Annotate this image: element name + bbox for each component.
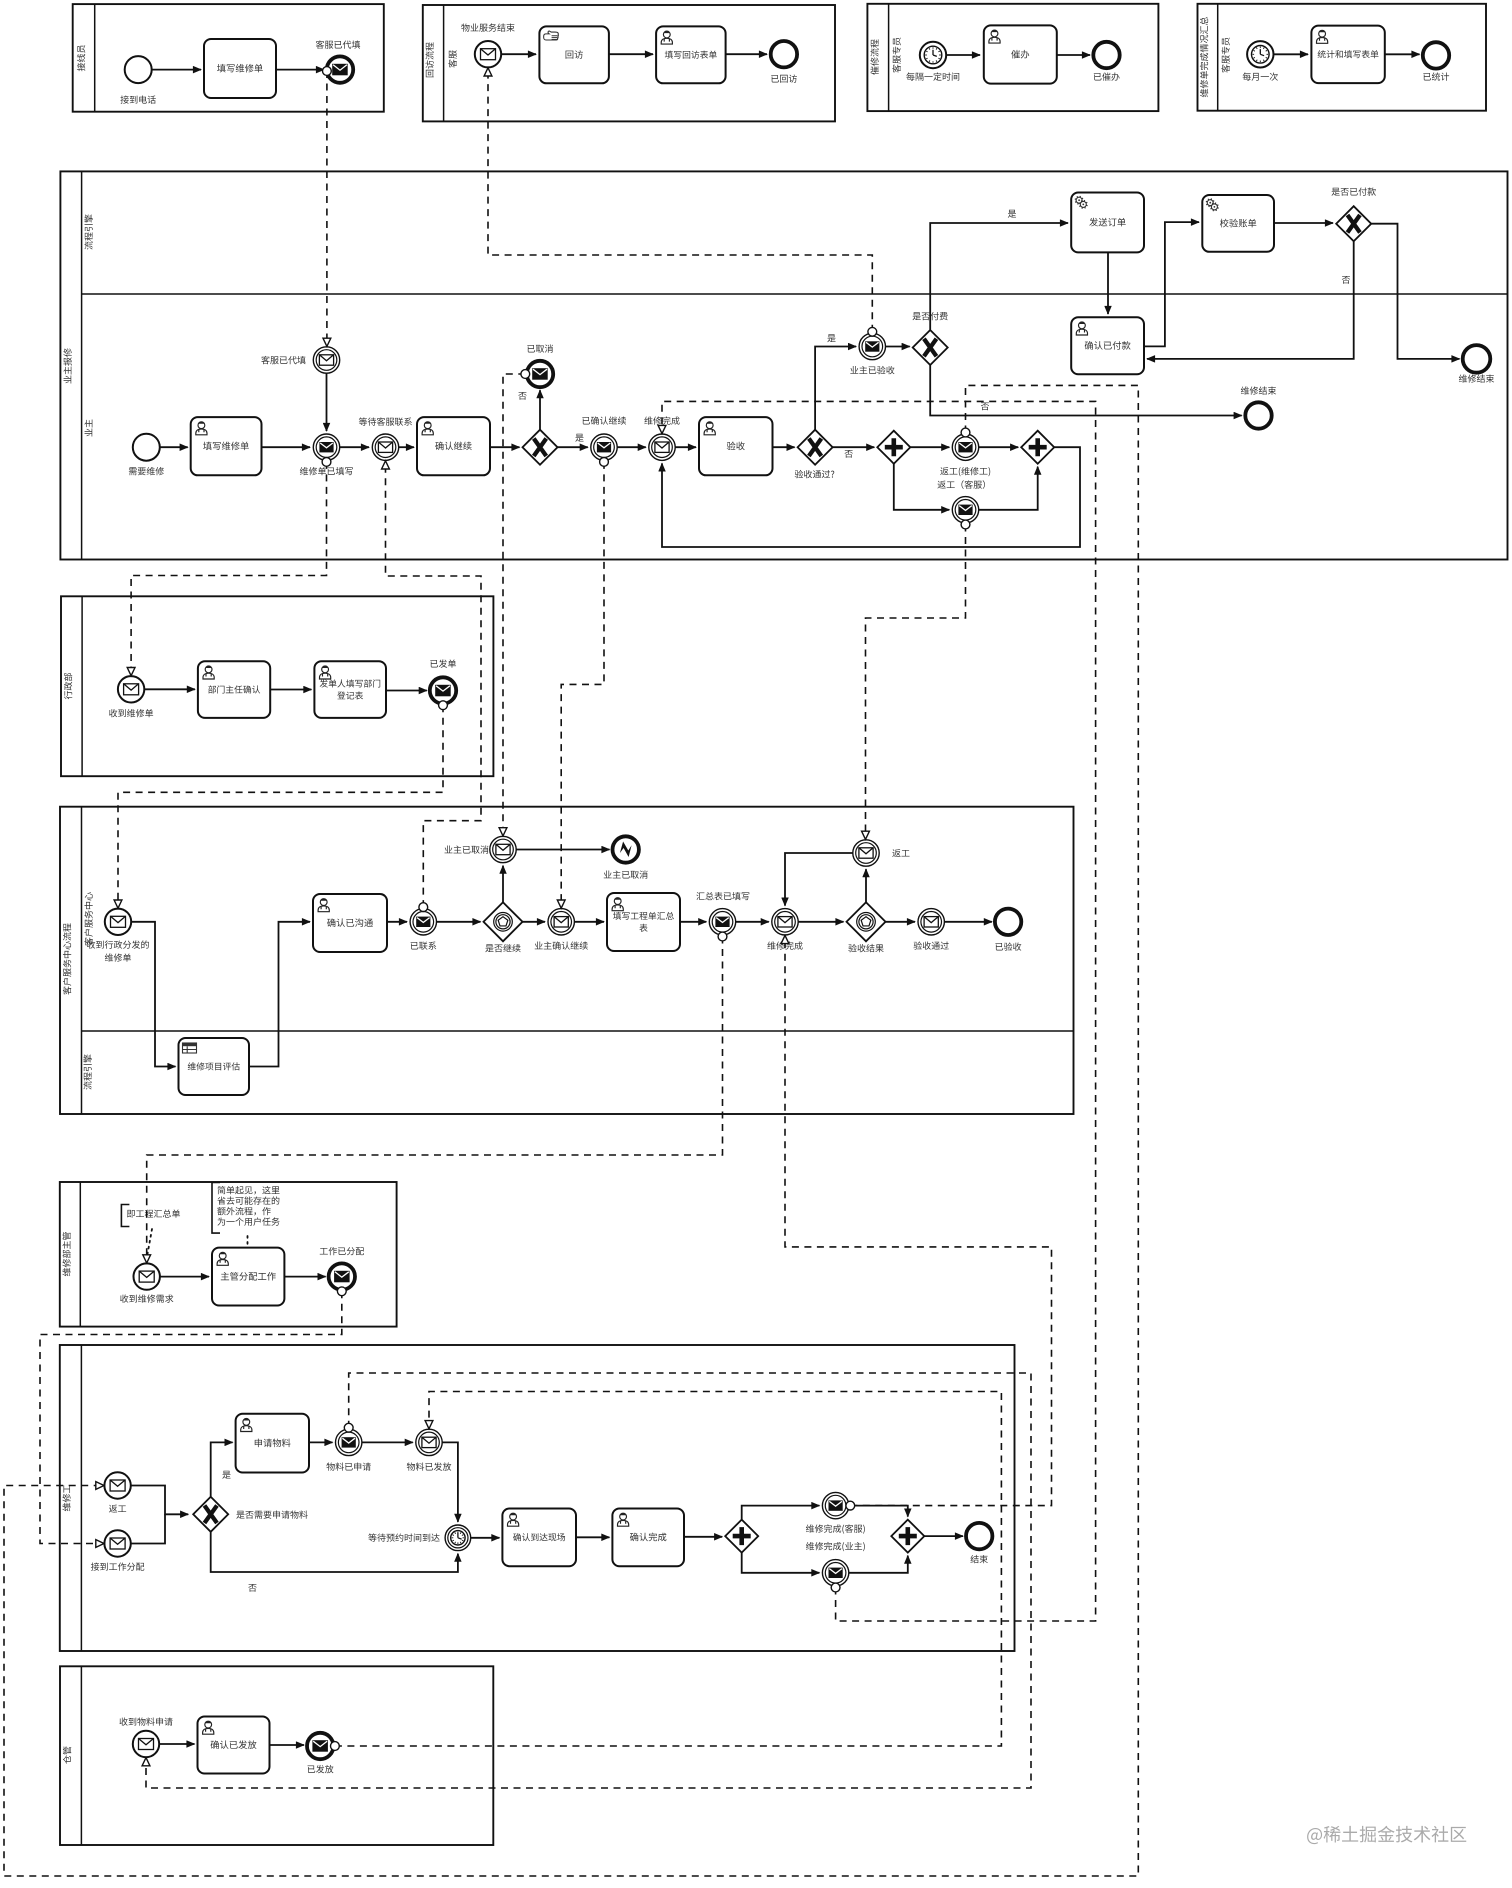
flow 是否付费->维修结束 (否) xyxy=(930,365,1241,416)
pool 维修部主管 xyxy=(60,1182,397,1327)
pool 维修工 xyxy=(60,1345,1015,1651)
message throw event 维修单已填写 xyxy=(313,434,339,460)
pool 仓管 xyxy=(60,1666,493,1845)
message catch event 业主确认继续 xyxy=(548,909,574,935)
user task 统计和填写表单 xyxy=(1311,26,1384,84)
flow 需要维修->填写维修单 xyxy=(160,446,188,448)
parallel gateway join (返工) xyxy=(1021,431,1054,464)
message throw event 业主已验收 xyxy=(859,333,885,359)
text annotation 即工程汇总单 xyxy=(121,1205,129,1227)
flow 催办->已催办 xyxy=(1057,54,1090,56)
flow 是否付费->发送订单 (是) xyxy=(930,223,1068,330)
end event 已回访 xyxy=(771,41,797,67)
message catch event 维修完成 xyxy=(649,434,675,460)
start event 接到电话 xyxy=(125,56,152,83)
flow 发单人填写部门登记表->已发单 xyxy=(386,690,427,692)
flow 填写维修单->end xyxy=(276,69,324,71)
message start event 接到工作分配 xyxy=(104,1530,130,1556)
flow start->维修项目评估 xyxy=(131,922,175,1067)
message end event 已取消 xyxy=(527,361,553,387)
flow 填写工程单汇总表->汇总表已填写 xyxy=(680,921,706,923)
user task 填写回访表单 xyxy=(656,26,726,83)
flow 维修完成->验收 xyxy=(675,446,696,448)
pool 回访流程 xyxy=(423,5,835,121)
message start event 收到物料申请 xyxy=(133,1731,159,1757)
flow 统计和填写表单->已统计 xyxy=(1385,53,1420,55)
flow split->返工(客服) xyxy=(894,464,950,510)
flow 返工(客服)->join xyxy=(979,467,1038,510)
lane divider 流程引擎/业主 xyxy=(82,293,1508,295)
flow 发送订单->确认已付款 xyxy=(1107,252,1109,314)
flow 已联系->是否继续 xyxy=(437,921,481,923)
flow 填写维修单->维修单已填写 xyxy=(262,446,311,448)
end event 结束 xyxy=(966,1523,992,1549)
flow 填写回访表单->已回访 xyxy=(726,53,767,55)
flow 收到物料申请->确认已发放 xyxy=(159,1743,194,1745)
flow 客服已代填->维修单已填写 xyxy=(326,373,328,431)
message throw event 返工(维修工) xyxy=(952,434,978,460)
message catch event 等待客服联系 xyxy=(372,434,398,460)
flow join->维修完成 (loop back) xyxy=(662,447,1080,547)
flow 验收结果->返工 (up) xyxy=(865,869,867,902)
end event 维修结束 (否付费) xyxy=(1245,402,1271,428)
message flow 客服已代填 end -> 客服已代填 catch xyxy=(326,71,328,346)
flow 维修单已填写->等待客服联系 xyxy=(340,446,369,448)
gateway 确认继续? xyxy=(523,430,558,465)
flow 维修完成(业主)->join xyxy=(849,1556,908,1573)
pool 客户服务中心流程 xyxy=(60,807,1074,1114)
flow 维修完成->验收结果 xyxy=(798,921,843,923)
message start event 返工 xyxy=(104,1472,130,1498)
message flow 已发单 -> 收到行政分发的维修单 xyxy=(118,705,443,908)
start event 需要维修 xyxy=(133,434,160,461)
message flow 返工(维修工) -> 返工 start xyxy=(4,385,1138,1876)
flow 验收->验收通过? xyxy=(773,446,795,448)
flow 确认完成->parallel split xyxy=(684,1536,722,1538)
flow 收到维修单->部门主任确认 xyxy=(144,688,195,690)
flow 返工->gateway xyxy=(131,1486,188,1515)
message flow 返工(客服) -> 返工 catch xyxy=(866,525,966,840)
flow gateway->已取消 (否) xyxy=(539,390,541,430)
flow 校验账单->是否已付款 xyxy=(1274,222,1333,224)
timer catch event 等待预约时间到达 xyxy=(445,1525,471,1551)
flow 物料已发放->等待预约时间到达 xyxy=(442,1442,458,1522)
user task 主管分配工作 xyxy=(212,1248,284,1306)
user task 确认已沟通 xyxy=(313,894,387,952)
message flow 工作已分配 -> 接到工作分配 xyxy=(40,1291,342,1543)
message flow 已确认继续 -> 业主确认继续 xyxy=(561,462,604,908)
end event 已验收 xyxy=(995,909,1021,935)
flow 业主确认继续->填写工程单汇总表 xyxy=(574,921,604,923)
flow 是否已付款->确认已付款 (否) xyxy=(1147,241,1354,359)
flow 等待预约时间到达->确认到达现场 xyxy=(471,1537,500,1539)
message flow 业主已验收 -> 物业服务结束 xyxy=(488,68,872,332)
pool 行政部 xyxy=(61,596,493,776)
error end event 业主已取消 xyxy=(613,836,639,862)
pool 维修单完成情况汇总 xyxy=(1198,4,1487,111)
user task 发单人填写部门登记表 xyxy=(314,661,386,718)
service task 发送订单 xyxy=(1071,193,1144,253)
flow 主管分配工作->工作已分配 xyxy=(284,1276,325,1278)
flow 是否继续->业主确认继续 xyxy=(523,921,546,923)
text annotation 简单起见... xyxy=(212,1182,220,1233)
message catch event 物料已发放 xyxy=(416,1429,442,1455)
message throw event 维修完成(业主) xyxy=(822,1560,848,1586)
business rule task 维修项目评估 xyxy=(179,1038,250,1095)
message catch event 客服已代填 xyxy=(313,347,339,373)
message flow 已联系 -> 等待客服联系 xyxy=(386,461,482,907)
service task 校验账单 xyxy=(1202,195,1274,252)
user task 确认已付款 xyxy=(1071,317,1144,374)
user task 部门主任确认 xyxy=(198,661,270,718)
user task 确认已发放 xyxy=(198,1717,270,1774)
flow 汇总表已填写->维修完成 xyxy=(736,921,769,923)
user task 填写工程单汇总表 xyxy=(607,893,680,951)
manual task 回访 xyxy=(539,26,609,83)
message start event 物业服务结束 xyxy=(475,41,501,67)
flow 收到维修需求->主管分配工作 xyxy=(160,1276,209,1278)
flow 确认到达现场->确认完成 xyxy=(576,1536,609,1538)
message end event 已发单 xyxy=(430,677,456,703)
message throw event 维修完成(客服) xyxy=(822,1492,848,1518)
message flow 已发放 -> 物料已发放 xyxy=(335,1392,1002,1747)
end event 维修结束 (paid) xyxy=(1463,345,1491,373)
lane divider 客户服务中心/流程引擎 xyxy=(82,1030,1074,1032)
flow split->维修完成(客服) xyxy=(742,1506,820,1520)
user task 填写维修单 xyxy=(191,417,262,475)
task 填写维修单 xyxy=(204,39,276,98)
flow 已确认继续->维修完成 xyxy=(617,446,646,448)
flow 物料已申请->物料已发放 xyxy=(362,1441,413,1443)
flow 是否已付款->维修结束 (right) xyxy=(1371,224,1459,359)
message catch event 返工 xyxy=(853,840,879,866)
flow 回访->填写回访表单 xyxy=(609,53,653,55)
flow 返工->维修完成 (loop) xyxy=(785,853,853,906)
flow 维修项目评估->确认已沟通 xyxy=(249,922,310,1067)
flow 业主已取消->error end xyxy=(516,849,609,851)
message flow 维修完成(客服) -> 维修完成 catch (客户服务中心) xyxy=(785,935,1052,1505)
message throw event 物料已申请 xyxy=(336,1429,362,1455)
message throw event 已联系 xyxy=(410,909,436,935)
user task 验收 xyxy=(699,417,773,475)
pool 催修流程 xyxy=(867,4,1158,111)
flow 确认已发放->已发放 xyxy=(270,1744,305,1746)
timer start event 每月一次 xyxy=(1247,41,1273,67)
gateway 是否付费 xyxy=(913,330,948,365)
gateway 是否已付款 xyxy=(1336,206,1371,241)
parallel gateway join (维修完成) xyxy=(891,1520,924,1553)
flow timer->统计和填写表单 xyxy=(1274,53,1309,55)
flow timer->催办 xyxy=(946,54,980,56)
flow 维修完成(客服)->join xyxy=(849,1506,908,1517)
end event 客服已代填 xyxy=(327,56,353,82)
flow start->填写维修单 xyxy=(152,69,201,71)
gateway 验收通过? xyxy=(798,430,833,465)
user task 确认继续 xyxy=(417,417,490,475)
user task 催办 xyxy=(984,25,1057,83)
flow 确认继续->gateway xyxy=(490,446,520,448)
flow gateway->申请物料 (是) xyxy=(211,1442,233,1496)
flow 验收通过?->parallel split (否) xyxy=(833,446,875,448)
flow gateway->等待预约时间到达 (否) xyxy=(211,1532,458,1572)
message flow 维修完成(业主) -> 维修完成 catch (业主 lane) xyxy=(662,401,1096,1621)
end event 已催办 xyxy=(1093,42,1119,68)
event gateway 是否继续 xyxy=(484,902,523,941)
message catch event 验收通过 xyxy=(918,909,944,935)
association annotation->主管分配工作 xyxy=(247,1236,249,1246)
flow split->维修完成(业主) xyxy=(742,1553,820,1573)
association annotation->收到维修需求 xyxy=(148,1229,153,1254)
flow 验收结果->验收通过 xyxy=(886,921,916,923)
message throw event 返工(客服) xyxy=(952,497,978,523)
watermark xyxy=(1307,1826,1466,1844)
message end event 已发放 xyxy=(307,1733,333,1759)
gateway 是否需要申请物料 xyxy=(193,1497,228,1532)
parallel gateway split (维修完成) xyxy=(725,1520,758,1553)
user task 确认完成 xyxy=(612,1509,684,1567)
message start event 收到行政分发的维修单 xyxy=(105,909,131,935)
user task 申请物料 xyxy=(236,1414,309,1473)
event gateway 验收结果 xyxy=(847,902,886,941)
flow 部门主任确认->发单人填写部门登记表 xyxy=(270,689,311,691)
flow 业主已验收->是否付费 xyxy=(886,346,910,348)
flow 等待客服联系->确认继续 xyxy=(399,446,414,448)
timer start event 每隔一定时间 xyxy=(920,42,946,68)
flow split->返工(维修工) xyxy=(910,446,949,448)
message catch event 业主已取消 xyxy=(490,836,516,862)
message throw event 汇总表已填写 xyxy=(709,909,735,935)
message flow 汇总表已填写 -> 收到维修需求 xyxy=(147,937,723,1264)
flow 接到工作分配->gateway xyxy=(131,1514,165,1543)
flow join->结束 xyxy=(924,1535,963,1537)
message flow 物料已申请 -> 收到物料申请 xyxy=(146,1373,1031,1788)
message throw event 已确认继续 xyxy=(591,434,617,460)
message flow 维修单已填写 -> 收到维修单 xyxy=(131,462,326,676)
flow gateway->已确认继续 (是) xyxy=(558,446,588,448)
message start event 收到维修需求 xyxy=(134,1263,160,1289)
flow 物业服务结束->回访 xyxy=(501,53,536,55)
flow 确认已沟通->已联系 xyxy=(387,921,407,923)
message flow 已取消 -> 业主已取消 xyxy=(503,374,525,836)
end event 已统计 xyxy=(1423,42,1449,68)
flow 验收通过->已验收 xyxy=(944,921,992,923)
user task 确认到达现场 xyxy=(502,1509,576,1567)
flow 验收通过?->业主已验收 (是) xyxy=(815,347,856,430)
pool 接线员 xyxy=(73,4,384,112)
flow 确认已付款->校验账单 xyxy=(1144,222,1199,346)
parallel gateway split (返工) xyxy=(877,431,910,464)
message start event 收到维修单 xyxy=(118,676,144,702)
flow 申请物料->物料已申请 xyxy=(309,1441,333,1443)
flow 返工(维修工)->join xyxy=(979,446,1019,448)
flow 是否继续->业主已取消 xyxy=(502,866,504,903)
message catch event 维修完成 (客服) xyxy=(772,909,798,935)
pool 业主报修 xyxy=(60,171,1507,559)
message end event 工作已分配 xyxy=(329,1263,355,1289)
